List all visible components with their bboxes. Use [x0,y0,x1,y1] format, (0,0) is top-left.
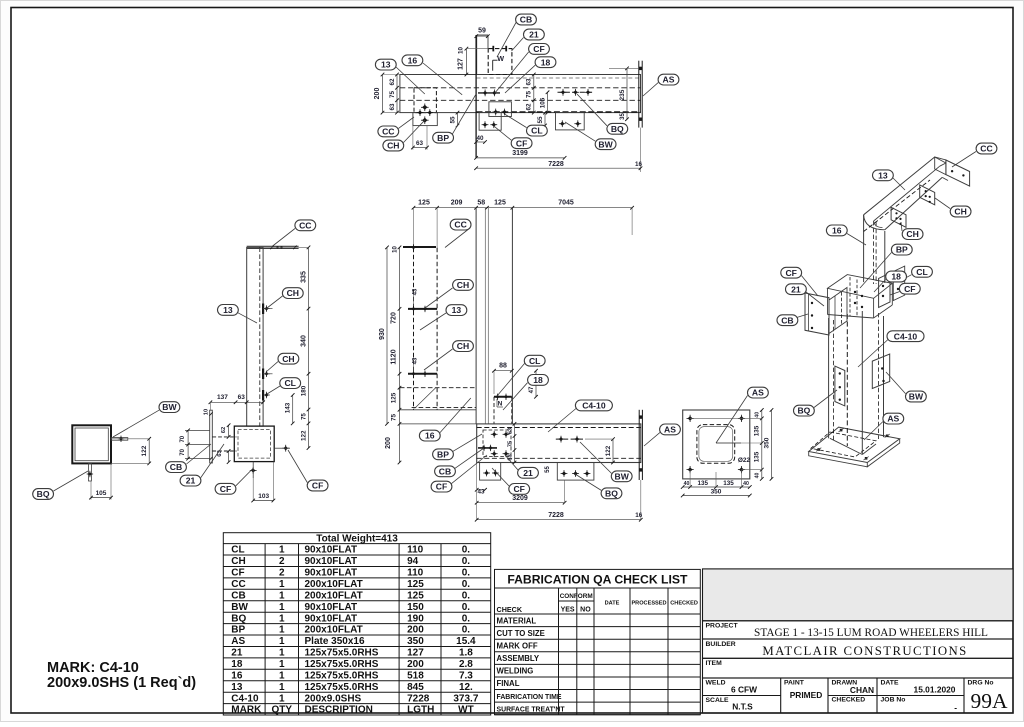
iso balloons [952,152,976,168]
svg-text:7228: 7228 [548,512,564,519]
balloon AS iso [883,413,904,424]
svg-text:180: 180 [300,385,307,396]
svg-text:0.: 0. [462,556,471,567]
svg-text:88: 88 [499,362,507,369]
balloons BW BQ [113,410,159,437]
svg-text:CC: CC [231,579,245,590]
svg-text:BQ: BQ [37,489,50,499]
balloon CH elev1 [453,280,474,291]
svg-text:NO: NO [580,607,591,614]
iso member 16 vertical tube [863,215,865,282]
balloon 13 elev [446,305,467,316]
svg-text:YES: YES [561,607,575,614]
plate CF in plan below beam [479,113,501,131]
svg-text:7228: 7228 [548,161,564,168]
svg-text:63: 63 [389,103,396,111]
BQ bolt row in plan [558,91,594,93]
plate CL side [262,390,264,401]
balloon AS plan [658,74,679,85]
iso plate BW on column [872,354,889,389]
svg-text:CL: CL [916,267,927,277]
dim 63 below plate CC [412,126,414,150]
bolt right of box [282,445,289,452]
svg-text:15.01.2020: 15.01.2020 [914,685,956,695]
plate BW in plan below beam [556,113,585,130]
dim 122 [111,438,149,440]
svg-text:135: 135 [754,451,761,462]
svg-text:C4-10: C4-10 [582,401,606,411]
balloon BP iso [891,244,912,255]
svg-text:55: 55 [545,466,551,473]
svg-text:190: 190 [407,613,424,624]
svg-text:CC: CC [299,220,311,230]
svg-text:CH: CH [906,229,918,239]
balloon BW elev [611,471,632,482]
iso base plate thickness [867,439,899,467]
svg-text:137: 137 [217,394,228,401]
svg-text:200: 200 [407,659,424,670]
svg-text:ASSEMBLY: ASSEMBLY [497,654,540,663]
dim 103 [252,478,254,501]
svg-text:143: 143 [285,402,292,413]
svg-text:63: 63 [507,454,513,461]
plate CH lower elevation [408,373,437,375]
plate CC elevation edge [403,246,436,248]
svg-text:DESCRIPTION: DESCRIPTION [305,705,373,716]
svg-text:125: 125 [391,392,398,403]
hidden column 13 dashed [413,248,415,410]
plate CH upper elevation [408,308,437,310]
svg-text:105: 105 [96,490,107,497]
svg-text:235: 235 [619,89,626,100]
iso column footprint dashed on plate [811,432,876,457]
svg-text:845: 845 [407,682,424,693]
svg-text:BQ: BQ [605,488,618,498]
side view balloons [272,229,295,247]
dim 40 [476,141,485,143]
svg-text:0.: 0. [462,590,471,601]
balloon BQ elev [601,488,622,499]
svg-text:BP: BP [437,449,449,459]
svg-text:FINAL: FINAL [497,679,520,688]
dim 127 / 10 [465,49,467,75]
balloon 21 side [180,475,201,486]
svg-text:200x9.0SHS (1 Req`d): 200x9.0SHS (1 Req`d) [47,675,196,691]
svg-text:70: 70 [180,435,186,442]
box section 21 side [234,426,274,462]
svg-text:MATERIAL: MATERIAL [497,616,537,625]
svg-text:13: 13 [878,170,888,180]
iso 21 stub [829,288,847,334]
bolts at column / BP area [478,92,500,94]
dim 3199 plan [476,157,564,159]
anchor bolts [687,415,694,422]
svg-text:105: 105 [539,97,546,108]
svg-text:CF: CF [220,484,231,494]
svg-text:43: 43 [413,357,419,364]
svg-text:CHAN: CHAN [850,685,874,695]
svg-text:55: 55 [449,116,456,124]
balloon C4-10 elev [575,400,612,411]
balloon CH iso1 [950,206,971,217]
svg-text:63: 63 [238,394,246,401]
svg-text:CL: CL [529,356,540,366]
svg-text:1: 1 [279,659,285,670]
plate CF below beam left [480,463,501,481]
balloon CF plan [529,44,550,55]
svg-text:MARK OFF: MARK OFF [497,642,538,651]
plate CL in plan [489,102,512,117]
svg-text:BW: BW [909,392,924,402]
svg-text:75: 75 [389,91,396,99]
svg-text:0.: 0. [462,568,471,579]
svg-text:125: 125 [418,200,430,207]
svg-text:200x10FLAT: 200x10FLAT [305,579,363,590]
svg-text:CF: CF [785,268,796,278]
svg-text:CONFORM: CONFORM [560,593,593,600]
iso node box at beam junction [828,275,893,299]
iso column bottom edges at plate [830,438,862,454]
balloon BP plan [433,132,454,143]
svg-text:PROCESSED: PROCESSED [631,601,666,607]
svg-text:MATCLAIR CONSTRUCTIONS: MATCLAIR CONSTRUCTIONS [762,644,967,658]
svg-text:350: 350 [763,437,770,448]
svg-text:70: 70 [180,448,186,455]
svg-text:350: 350 [407,636,424,647]
svg-text:90x10FLAT: 90x10FLAT [305,602,358,613]
dim 105 [547,92,549,112]
svg-text:125x75x5.0RHS: 125x75x5.0RHS [305,648,379,659]
svg-text:CH: CH [954,207,966,217]
plate BW edge [111,438,128,441]
svg-text:18: 18 [541,57,551,67]
svg-text:200: 200 [374,88,381,100]
balloon CL side [280,378,301,389]
balloon 18 plan [535,57,556,68]
svg-text:BW: BW [598,139,613,149]
column section square [72,425,111,463]
svg-text:AS: AS [752,388,764,398]
svg-text:125x75x5.0RHS: 125x75x5.0RHS [305,659,379,670]
svg-text:200x9.0SHS: 200x9.0SHS [305,693,362,704]
column 13 side [247,247,263,426]
svg-text:135: 135 [698,480,709,487]
svg-text:1: 1 [279,545,285,556]
svg-text:CC: CC [980,144,992,154]
svg-text:110: 110 [407,568,424,579]
svg-text:15.4: 15.4 [456,636,476,647]
svg-text:BP: BP [437,133,449,143]
end plate AS elevation [638,410,640,480]
balloon 21 elev [518,467,539,478]
svg-text:16: 16 [832,226,842,236]
svg-text:CB: CB [170,462,182,472]
bolt bottom of box [250,467,257,474]
svg-text:1120: 1120 [391,349,398,364]
svg-text:10: 10 [204,409,210,415]
dim 43 below beam [477,489,485,491]
svg-text:90x10FLAT: 90x10FLAT [305,613,358,624]
svg-text:127: 127 [458,58,465,70]
svg-text:200: 200 [385,437,392,449]
svg-text:1: 1 [279,602,285,613]
svg-text:PROJECT: PROJECT [706,623,739,630]
svg-text:13: 13 [223,305,233,315]
svg-text:1: 1 [279,579,285,590]
balloon CL elev [524,355,545,366]
logo area [703,569,1014,621]
svg-text:CF: CF [516,138,527,148]
balloon CF2 plan [511,138,532,149]
plate CH side upper [262,304,264,315]
svg-text:90x10FLAT: 90x10FLAT [305,545,358,556]
dims 137 63 above [210,401,263,403]
svg-text:CF: CF [312,481,323,491]
svg-text:N.T.S: N.T.S [732,702,753,712]
iso plate CC [946,160,970,186]
balloon 13 side [218,305,239,316]
plate CH side lower [262,369,264,380]
balloon 16 iso [826,225,847,236]
balloon CF side2 [307,480,328,491]
svg-text:18: 18 [231,659,243,670]
svg-text:CH: CH [282,354,294,364]
svg-text:CUT TO SIZE: CUT TO SIZE [497,629,545,638]
svg-text:122: 122 [300,430,307,441]
svg-text:1: 1 [279,590,285,601]
svg-text:209: 209 [451,200,463,207]
dims 63 75 62 right of column [533,75,535,113]
svg-text:75: 75 [507,440,513,447]
svg-text:125x75x5.0RHS: 125x75x5.0RHS [305,682,379,693]
svg-text:13: 13 [231,682,243,693]
plate CC side edge [247,245,299,247]
column 21 stub in plan (hidden, dashed) [488,49,512,75]
dim 235 / 35 [626,68,628,119]
svg-text:JOB No: JOB No [881,697,906,704]
svg-text:18: 18 [891,272,901,282]
svg-text:BQ: BQ [797,406,810,416]
svg-text:1: 1 [279,682,285,693]
svg-text:STAGE 1 - 13-15 LUM ROAD WHEEL: STAGE 1 - 13-15 LUM ROAD WHEELERS HILL [754,627,988,639]
svg-text:BW: BW [615,471,630,481]
iso plate CH 1 [920,185,935,205]
svg-text:CHECKED: CHECKED [670,601,698,607]
plate CC in plan (dashed inside beam, solid below) [414,88,436,113]
svg-text:125: 125 [407,579,424,590]
svg-text:125: 125 [407,590,424,601]
svg-text:18: 18 [533,375,543,385]
iso base plate AS [809,427,900,462]
svg-text:94: 94 [407,556,419,567]
balloon 18 iso [886,271,907,282]
svg-text:0.: 0. [462,613,471,624]
svg-text:CB: CB [520,15,532,25]
bottom dim string [683,486,750,488]
beam C4-10 elevation [477,424,641,463]
svg-text:58: 58 [477,200,485,207]
svg-text:N: N [498,401,503,408]
svg-text:110: 110 [407,545,424,556]
plate CB side edge-on [210,410,213,463]
svg-text:13: 13 [452,305,462,315]
dim 200 left [382,75,384,113]
svg-text:CL: CL [231,545,244,556]
iso column C4-10 edges [828,318,830,438]
PARTS TABLE [223,533,490,715]
svg-text:75: 75 [301,413,307,420]
balloon 21 plan [524,29,545,40]
balloon BW plan [595,139,616,150]
BP connection bolts in beam [483,430,511,457]
svg-text:Plate 350x16: Plate 350x16 [305,636,365,647]
svg-text:-: - [954,703,957,713]
svg-text:1: 1 [279,625,285,636]
weld centerline at column [475,35,477,158]
iso bolts at node [854,291,856,293]
balloon BW section [159,402,180,413]
plate CL elevation [494,396,512,398]
svg-text:16: 16 [635,512,643,519]
svg-text:BQ: BQ [231,613,246,624]
svg-text:930: 930 [379,328,386,340]
svg-text:CHECKED: CHECKED [832,697,866,704]
svg-text:55: 55 [537,116,544,124]
BW bolt row in beam [556,438,585,440]
svg-text:LGTH: LGTH [407,705,434,716]
svg-text:62: 62 [389,78,396,86]
svg-text:200x10FLAT: 200x10FLAT [305,590,363,601]
svg-text:16: 16 [425,431,435,441]
svg-text:WELD: WELD [706,680,726,687]
svg-text:CH: CH [287,288,299,298]
dim 105 [110,463,112,499]
svg-text:CH: CH [387,141,399,151]
balloon CF2 elev [509,484,530,495]
svg-text:Ø22: Ø22 [738,457,751,464]
svg-text:16: 16 [635,161,643,168]
svg-text:FABRICATION TIME: FABRICATION TIME [497,694,562,701]
balloon CC plan [378,126,399,137]
svg-text:AS: AS [231,636,245,647]
svg-text:122: 122 [605,445,612,456]
svg-text:103: 103 [258,493,269,500]
svg-text:90x10FLAT: 90x10FLAT [305,556,358,567]
svg-text:CHECK: CHECK [497,605,523,614]
svg-text:200x10FLAT: 200x10FLAT [305,625,363,636]
svg-text:16: 16 [231,670,243,681]
svg-text:FABRICATION QA CHECK LIST: FABRICATION QA CHECK LIST [507,573,688,587]
svg-text:DATE: DATE [605,601,620,607]
balloon BQ section [33,489,54,500]
svg-text:BP: BP [896,245,908,255]
balloon CC iso [976,143,997,154]
svg-text:40: 40 [755,412,761,418]
TITLE BLOCK [703,569,1014,713]
svg-text:90x10FLAT: 90x10FLAT [305,568,358,579]
svg-text:35: 35 [620,113,626,120]
balloon AS base [748,387,769,398]
balloon CC elev [450,219,471,230]
balloon CC side [295,220,316,231]
balloon BQ plan [607,123,628,134]
svg-text:AS: AS [664,425,676,435]
svg-text:63: 63 [526,78,533,86]
svg-text:CH: CH [457,341,469,351]
dim 143 [292,395,294,423]
balloon CF elev [431,481,452,492]
column verticals elevation [475,208,477,424]
svg-text:AS: AS [663,75,675,85]
member 18 hidden below CL [493,397,495,424]
balloon CH elev2 [453,341,474,352]
right dim string 40 135 135 40 350 [761,410,763,479]
svg-text:2: 2 [279,556,285,567]
svg-text:6 CFW: 6 CFW [731,684,757,694]
svg-text:SCALE: SCALE [706,697,730,704]
svg-text:QTY: QTY [272,705,293,716]
balloon CB plan [516,14,537,25]
svg-text:CF: CF [513,484,524,494]
svg-text:75: 75 [526,91,533,99]
svg-text:0.: 0. [462,602,471,613]
balloon CB elev [435,466,456,477]
balloon AS elev [660,424,681,435]
right dim string 335 340 180 75 122 [308,247,310,448]
svg-text:40: 40 [476,135,484,142]
svg-text:125: 125 [494,200,506,207]
dim 55 right [544,113,546,127]
balloon BQ iso [794,405,815,416]
dim 55 left [457,113,459,127]
iso plate BQ on column [835,366,845,406]
svg-text:BW: BW [231,602,248,613]
svg-text:CL: CL [284,378,295,388]
AS balloon of base detail [716,396,748,444]
svg-text:1: 1 [279,670,285,681]
iso plate CB left [805,293,829,335]
svg-text:99A: 99A [970,689,1008,713]
svg-text:2.8: 2.8 [459,659,473,670]
left vertical dims 930 / 720 1120 125 75 200 [386,247,388,424]
svg-text:518: 518 [407,670,424,681]
svg-text:7045: 7045 [558,200,574,207]
balloon CH iso2 [902,229,923,240]
svg-text:MARK: MARK [231,705,262,716]
FABRICATION QA CHECK LIST table [495,569,701,714]
balloon 13 plan [375,59,396,70]
svg-text:1: 1 [279,613,285,624]
svg-text:150: 150 [407,602,424,613]
svg-text:BUILDER: BUILDER [706,641,736,648]
svg-text:C4-10: C4-10 [894,331,918,341]
svg-text:CF: CF [533,44,544,54]
svg-text:CH: CH [231,556,245,567]
svg-text:13: 13 [381,60,391,70]
svg-text:10: 10 [458,47,465,55]
svg-text:BP: BP [231,625,245,636]
svg-text:43: 43 [477,489,485,496]
svg-text:75: 75 [391,414,398,422]
balloon CL plan [527,125,548,136]
balloon 18 elev [528,375,549,386]
svg-text:7.3: 7.3 [459,670,473,681]
dim 88 and 47 [494,370,512,372]
dims 62 75 63 left [396,75,398,113]
svg-text:CC: CC [382,127,394,137]
iso plate CH 2 [891,207,906,227]
balloon CH side2 [278,353,299,364]
